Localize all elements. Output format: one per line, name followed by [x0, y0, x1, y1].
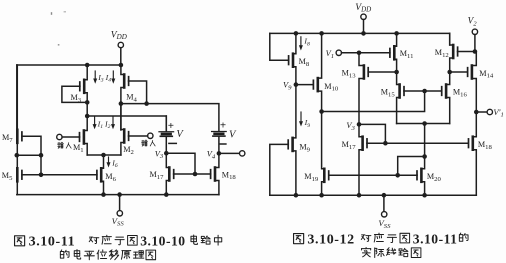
- label V3 (left circuit): [155, 149, 164, 160]
- label M7: [2, 133, 13, 144]
- battery V (right shift, under M4): [212, 120, 237, 154]
- wire M4 source down to M2 drain: [120, 104, 122, 130]
- wire common source line M1-M2: [87, 154, 121, 156]
- node gate line junction: [193, 172, 198, 177]
- label M14: [479, 69, 494, 80]
- node M11 source / M15 drain / M13 gate: [394, 70, 399, 75]
- svg-text:M8: M8: [299, 57, 310, 68]
- svg-text:M2: M2: [123, 145, 134, 156]
- label M18 (right): [478, 140, 493, 151]
- node on M19-M20 gate line: [395, 173, 400, 178]
- wire M7 source node line: [17, 154, 41, 156]
- caption figure 3.10-12 line 2: [362, 247, 421, 257]
- node V3 (left circuit): [164, 151, 169, 156]
- transistor M1: [80, 116, 88, 155]
- transistor M3: [80, 65, 87, 102]
- transistor M7: [17, 65, 22, 155]
- label M6: [105, 172, 116, 183]
- svg-text:+: +: [168, 120, 174, 132]
- label V4: [207, 150, 216, 161]
- node V3 (right circuit): [357, 122, 362, 127]
- transistor M12: [450, 33, 458, 72]
- input terminal (right, M2 gate): [129, 133, 154, 138]
- svg-text:V: V: [229, 129, 237, 140]
- svg-text:I9: I9: [304, 118, 311, 129]
- transistor M6: [97, 155, 104, 195]
- wire M1 drain to battery 1 (crosses M4 source column): [87, 116, 166, 131]
- label current I6: [107, 157, 118, 169]
- label current I9: [299, 112, 310, 129]
- caption figure 3.10-11 line 1: [15, 233, 222, 249]
- label currents I3 I4: [93, 71, 115, 84]
- transistor M17 (right circuit): [359, 124, 367, 195]
- svg-text:M17: M17: [342, 140, 357, 151]
- node gate line junction (right): [383, 141, 388, 146]
- label V9: [283, 81, 292, 92]
- wire M4 source line to battery 2: [121, 104, 219, 131]
- power terminal VSS (left circuit): [112, 195, 125, 228]
- svg-text:V′1: V′1: [493, 107, 503, 119]
- svg-text:I4: I4: [105, 73, 112, 84]
- wire M15-M16 common source line: [397, 123, 450, 125]
- caption figure 3.10-11 line 2: [60, 250, 155, 260]
- node source line center: [422, 121, 427, 126]
- svg-text:M6: M6: [105, 172, 116, 183]
- transistor M8: [289, 33, 296, 84]
- label V3 (right circuit): [346, 121, 355, 132]
- node M7 gate tie: [39, 153, 44, 158]
- wire source line down to M20 drain: [424, 124, 426, 157]
- wire M17-M18 gate line (right): [367, 142, 468, 144]
- node M3 source: [85, 100, 90, 105]
- label M5: [2, 171, 13, 182]
- transistor M4: [121, 65, 129, 104]
- svg-text:VDD: VDD: [355, 2, 371, 14]
- transistor M13: [359, 53, 368, 125]
- svg-text:M5: M5: [2, 171, 13, 182]
- scan speck 2: [64, 11, 66, 12]
- node M15-M16 gate tie: [422, 89, 427, 94]
- svg-text:M18: M18: [478, 140, 493, 151]
- svg-text:M1: M1: [73, 143, 84, 154]
- node M20 drain tie: [422, 154, 427, 159]
- svg-text:I8: I8: [303, 37, 310, 48]
- node M6 source on rail: [101, 192, 106, 197]
- transistor M20: [417, 157, 425, 196]
- label M17 (right): [342, 140, 357, 151]
- node V4: [217, 151, 222, 156]
- node M11 drain on rail: [394, 31, 399, 36]
- svg-text:V3: V3: [155, 149, 164, 160]
- wire M19-M20 gate line (crosses M17 source column): [329, 174, 417, 176]
- wire M10 source line to gate tie: [322, 91, 425, 112]
- node M7 source / M5 drain: [14, 153, 19, 158]
- output terminal V1prime: [476, 107, 504, 119]
- wire M4 gate loop to source line: [129, 81, 147, 104]
- wire VSS bottom rail (left): [17, 194, 219, 196]
- node V2 / M14 drain: [473, 49, 478, 54]
- svg-text:M10: M10: [324, 82, 339, 93]
- label currents I1 I2: [93, 117, 115, 130]
- wire M9 gate loop to bottom rail: [270, 144, 289, 195]
- wire M3 source to M1 drain: [86, 102, 88, 116]
- wire V3 hook to M17-M18 gate line: [359, 124, 385, 143]
- svg-text:M16: M16: [453, 88, 468, 99]
- node M9 source on rail: [294, 193, 299, 198]
- svg-text:V1: V1: [326, 49, 334, 60]
- svg-text:3.10-12: 3.10-12: [307, 233, 354, 248]
- node M4 drain on rail: [119, 63, 124, 68]
- wire M8 gate loop from rail: [270, 33, 289, 60]
- transistor M5: [17, 155, 22, 194]
- wire M7 gate loop: [22, 136, 41, 155]
- wire V3 to gate line hook: [166, 153, 195, 174]
- label M4: [126, 93, 137, 104]
- wire gate tie down to mirror gate line: [40, 155, 42, 175]
- label M20: [427, 172, 442, 183]
- node VDD stem on rail: [361, 31, 366, 36]
- svg-text:V2: V2: [468, 16, 478, 28]
- label M11: [400, 49, 414, 60]
- svg-text:+: +: [220, 120, 226, 132]
- label M1: [73, 143, 84, 154]
- node output V1prime: [474, 110, 479, 115]
- node M10 drain on rail: [319, 31, 324, 36]
- svg-text:VSS: VSS: [378, 218, 391, 230]
- label M9: [299, 143, 310, 154]
- wire M15-M16 gate line: [404, 90, 442, 92]
- svg-text:M13: M13: [342, 69, 357, 80]
- label input (zuoru right): [142, 140, 156, 146]
- power terminal VSS (right circuit): [378, 195, 391, 230]
- svg-text:M14: M14: [479, 69, 494, 80]
- transistor M9: [288, 85, 296, 196]
- node on M5-M6 gate line: [39, 173, 44, 178]
- svg-text:I2: I2: [104, 119, 111, 130]
- node M17 source on rail (right): [357, 193, 362, 198]
- wire left outer column (VDD rail to M7 drain): [16, 65, 18, 130]
- wire M3 gate-to-source loop: [62, 86, 87, 102]
- wire M13 gate to M11 source node: [368, 71, 396, 73]
- node V1 / M13 drain tap: [357, 51, 362, 56]
- power terminal VDD (right circuit): [355, 2, 371, 34]
- node M3 drain on rail: [85, 63, 90, 68]
- label M13: [342, 69, 357, 80]
- wire M14 gate to M16 drain node: [450, 71, 467, 73]
- svg-text:M17: M17: [150, 170, 165, 181]
- node M1 drain / battery feed tap: [85, 114, 90, 119]
- svg-text:M7: M7: [2, 133, 13, 144]
- label M15: [381, 88, 396, 99]
- svg-text:M20: M20: [427, 172, 442, 183]
- transistor M2: [121, 104, 129, 155]
- svg-text:VSS: VSS: [112, 216, 125, 228]
- node M10 source / M19 drain: [319, 109, 324, 114]
- svg-text:M15: M15: [381, 88, 396, 99]
- battery V (left shift, under M1): [159, 116, 184, 153]
- transistor M18 (left circuit): [211, 153, 219, 194]
- node M19 source on rail: [319, 193, 324, 198]
- power terminal VDD (left circuit): [111, 29, 127, 65]
- wire M17-M18 gate line: [174, 173, 211, 175]
- transistor M14: [468, 52, 477, 113]
- transistor M16: [442, 72, 450, 124]
- label M19: [304, 172, 319, 183]
- node VSS tap: [117, 192, 122, 197]
- input terminal V1: [326, 49, 390, 60]
- svg-text:M9: M9: [299, 143, 310, 154]
- svg-text:3.10-11: 3.10-11: [29, 235, 76, 250]
- power terminal V2: [468, 16, 478, 52]
- svg-text:M12: M12: [435, 48, 449, 59]
- transistor M17 (left circuit): [166, 153, 173, 194]
- node M4 source: [119, 101, 124, 106]
- wire VSS bottom rail (right): [270, 194, 477, 196]
- svg-text:I6: I6: [111, 158, 118, 169]
- svg-text:VDD: VDD: [111, 29, 127, 41]
- label M2: [123, 145, 134, 156]
- label current I8: [299, 37, 310, 51]
- svg-text:V4: V4: [207, 150, 216, 161]
- svg-text:I3: I3: [97, 73, 104, 84]
- svg-text:V: V: [176, 129, 184, 140]
- svg-text:M19: M19: [304, 172, 319, 183]
- label M3: [71, 93, 82, 104]
- label M18 (left): [222, 170, 237, 181]
- node M12 source / M16 drain / M14 gate: [447, 70, 452, 75]
- svg-text:I1: I1: [97, 119, 104, 130]
- svg-text:M11: M11: [400, 49, 414, 60]
- transistor M10: [313, 33, 321, 111]
- node common source: [101, 153, 106, 158]
- svg-text:M4: M4: [126, 93, 137, 104]
- transistor M19: [322, 112, 329, 196]
- svg-text:3.10-11: 3.10-11: [413, 231, 458, 246]
- label M12: [435, 48, 449, 59]
- node V9: [294, 82, 299, 87]
- output terminal at V4: [221, 151, 245, 156]
- label M10: [324, 82, 339, 93]
- scan speck 3: [58, 44, 60, 46]
- svg-text:M18: M18: [222, 170, 237, 181]
- svg-text:3.10-10: 3.10-10: [140, 233, 185, 248]
- wire M5-M6 gate line: [22, 174, 97, 176]
- node M17 source on rail: [164, 192, 169, 197]
- node VSS tap (right): [382, 193, 387, 198]
- wire M20 drain-gate hook: [398, 157, 425, 176]
- caption figure 3.10-12 line 1: [294, 231, 468, 247]
- node M4 gate tie: [144, 101, 149, 106]
- label M17 (left): [150, 170, 165, 181]
- label input (zuoru left): [58, 142, 72, 148]
- wire V9 to M10 gate: [296, 84, 313, 86]
- transistor M11: [390, 33, 397, 72]
- svg-text:V3: V3: [346, 121, 355, 132]
- scan speck 1: [51, 12, 52, 15]
- label M8: [299, 57, 310, 68]
- transistor M18 (right circuit): [469, 112, 477, 195]
- node M8 drain on rail: [294, 31, 299, 36]
- wire VDD top rail (right): [270, 32, 450, 34]
- node M20 source on rail: [422, 193, 427, 198]
- input terminal (left, M1 gate): [57, 134, 80, 139]
- wire VDD top rail (left): [17, 64, 121, 66]
- wire rail end down to M12 drain: [449, 33, 451, 45]
- wire M12 gate to V2 node: [458, 51, 475, 53]
- label M16: [453, 88, 468, 99]
- svg-text:V9: V9: [283, 81, 292, 92]
- transistor M15: [397, 72, 404, 124]
